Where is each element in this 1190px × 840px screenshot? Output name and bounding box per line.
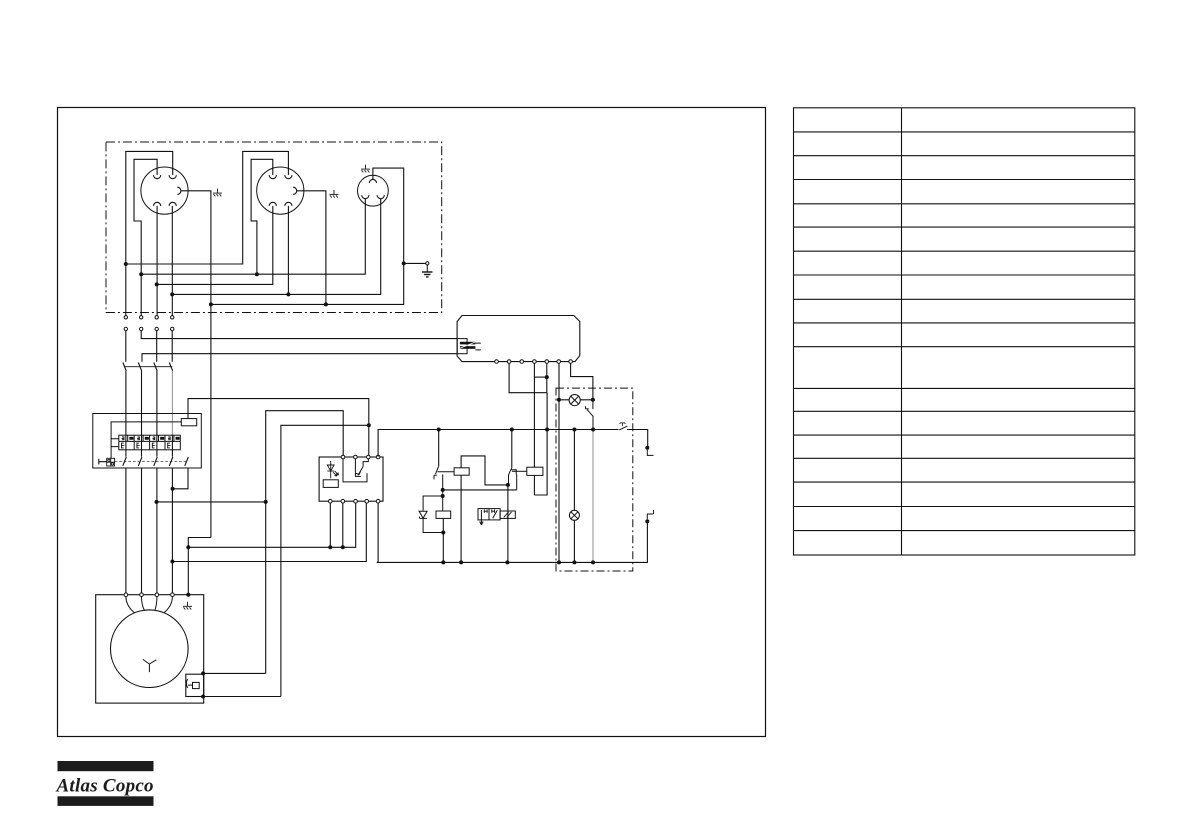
thermistor riser and top run to relay pin t1 [266, 411, 344, 674]
pneumatic valve Y1 body [478, 509, 515, 525]
wire T5 down joining T2 run [546, 363, 548, 392]
main switch linkage line [124, 366, 173, 368]
motor thermal switch box [186, 674, 204, 696]
coil K2 rectangle (right) [527, 467, 543, 475]
bus line 1 from feeder1 to socket X2 pin NE [126, 151, 289, 264]
neutral distribution to relay pins b1 b2 b3 [188, 503, 355, 547]
motor feeder 1 breaker to motor [125, 468, 127, 593]
connector X4 pin circles upper row [124, 316, 174, 319]
cubicle dash-dot enclosure around sockets [106, 142, 442, 313]
coil Y1 rectangle (solenoid coil) [436, 511, 451, 518]
Atlas Copco logo [56, 761, 154, 806]
switch pole 4 drop (grey print) into breaker [171, 371, 173, 435]
bus line 4 from feeder4 to socket X3 pin SE [172, 199, 381, 295]
wire X1 pin SW down to feeder 3 [156, 206, 158, 316]
coil Y1 bottom lead to rail [442, 518, 444, 562]
junction dots in control section [155, 375, 650, 698]
motor star symbol [143, 659, 157, 672]
motor feeder 3 breaker to motor [156, 468, 158, 593]
wire X2 pin SE joining bus 4 [287, 206, 289, 295]
feeder4 tap to relay pin b4 [172, 503, 366, 562]
main switch Q0 blades [123, 363, 173, 371]
earth symbol inside motor box [183, 602, 192, 610]
coil K3 top lead over to interlock contact [461, 456, 508, 485]
svg-text:Atlas Copco: Atlas Copco [56, 776, 154, 797]
relay K1 box [319, 457, 383, 501]
earth symbol beside socket X2 [330, 190, 339, 198]
wire X2 pin NW with jog joining bus 2 [251, 159, 273, 274]
motor feeder 4 breaker to motor [171, 468, 173, 593]
controller lower feed line with drop to switch pole 2 [142, 354, 457, 362]
junction dots on socket bus lines [124, 261, 406, 306]
feeder 3 drop from connector to switch pole 3 [156, 331, 158, 362]
breaker control stubs into contact block [111, 439, 119, 447]
coil K3 rectangle (left) [454, 468, 469, 475]
motor M1 star point terminal dot [186, 593, 190, 597]
overload reset terminal bar [99, 459, 107, 465]
earth symbol beside socket X1 [213, 189, 222, 197]
wire T7 down over to lamp column [571, 363, 593, 400]
breaker Q1 outer box [93, 414, 202, 469]
lamp H1 [569, 395, 580, 406]
bus line 5 from bus5 tap to socket X3 pin N [211, 168, 404, 304]
wire T4 down to coil K2 [533, 363, 535, 467]
thermistor return riser and run to relay pin t3 tap [281, 425, 369, 696]
feeder 2 drop then tap to controller upper plate [141, 331, 457, 339]
door contact S3 lower [647, 510, 654, 519]
breaker Q1 auxiliary rectangle [181, 419, 196, 426]
wire X2 pin E right then down joining bus 5 [297, 191, 326, 305]
EMC filter plates [460, 342, 481, 350]
wire X1 pin E right then down to bus 5 [181, 191, 211, 538]
socket X2 contact pins [269, 175, 296, 206]
paper border frame of schematic sheet [58, 108, 766, 737]
wire X1 pin SE down to feeder 4 [171, 206, 173, 316]
feeder 1 drop from connector to main switch pole 1 [125, 331, 127, 362]
breaker pole wires through block to blades [126, 435, 172, 457]
tap from feeder3 to thermistor riser [157, 501, 266, 503]
lamp panel dash-dot enclosure [556, 388, 633, 571]
motor M1 outer box [96, 595, 204, 703]
contact K2a blade and lower lead [434, 466, 454, 511]
contact K3a vertical from line Q [511, 430, 513, 468]
socket X1 contact pins [154, 175, 181, 206]
neutral jog from socket bus 5 down to motor star point [188, 538, 211, 594]
wire T2 down and across [509, 363, 547, 392]
parts list table (empty two-column table at right) [794, 108, 1135, 555]
breaker trip linkage dashed [115, 461, 187, 463]
feeder 4 drop joining lower controller line [171, 331, 173, 362]
breaker contact block frame [119, 435, 181, 450]
motor M1 winding leads [126, 597, 172, 613]
relay K1 LED indicator [327, 461, 338, 478]
control feed from pole5 riser over to relay column [188, 399, 369, 457]
relay K1 bottom pin drops b1 b2 [330, 503, 343, 547]
control line Q from relay pin t4 across cubicle [378, 430, 648, 457]
bridge T4 to T5 [534, 376, 546, 378]
pushbutton gap and blade on line Q [619, 423, 628, 431]
coil K2 bottom lead stub [533, 475, 535, 495]
motor M1 stator circle [111, 610, 189, 688]
earth terminal circle [426, 262, 429, 265]
breaker internal control run to aux rectangle [111, 422, 181, 458]
motor thermal leads to risers [203, 673, 281, 696]
relay K1 pin b5 drop to rail start [377, 503, 378, 562]
bus line 2 from feeder2 to socket X3 pin SW [141, 199, 365, 275]
solenoid drop through valve to rail [507, 485, 509, 563]
motor feeder 2 breaker to motor [141, 468, 143, 593]
common drop to coil K2 bottom link [534, 393, 547, 495]
door contact S2 upper [647, 450, 653, 456]
breaker pole 5 wire bridging to feeder 4 [173, 468, 188, 489]
socket X2 body [257, 167, 304, 214]
lamp H2 leads [573, 430, 575, 563]
breaker blades [123, 457, 189, 466]
bottom control rail [377, 521, 648, 562]
relay K1 coil rectangle [323, 480, 338, 488]
socket X3 contact pins [362, 179, 385, 198]
motor M1 terminal circles [124, 593, 174, 597]
chassis ground symbol [422, 265, 432, 277]
relay K1 bottom pin circles [329, 499, 380, 503]
lamp column lower run (grey print) [592, 430, 594, 563]
socket X1 body [141, 167, 188, 214]
thermal overload element box [107, 458, 115, 466]
coil K3 bottom lead to rail [460, 475, 462, 562]
wire X1 pin NW up-over-down with jog to feeder 2 [134, 159, 157, 315]
relay K1 internal contact [343, 459, 368, 482]
wire X1 pin NE up-over-down to feeder 1 [126, 151, 173, 315]
breaker contact block glyphs [122, 437, 180, 448]
earth symbol beside socket X3 [361, 165, 370, 173]
lamp H2 [569, 510, 579, 520]
contact K3a blade and leads [509, 467, 527, 490]
switch pole drops into breaker [126, 371, 157, 435]
earth tap from socket X3 riser [404, 262, 428, 264]
thermal switch contact [186, 679, 199, 689]
lamp H1 leads [559, 399, 593, 401]
freewheel diode V1 branch [419, 496, 443, 533]
controller EMC feed-through box [457, 339, 467, 354]
pressure switch on lamp column [586, 400, 594, 430]
socket X3 body [358, 175, 389, 206]
contact K2a vertical from line Q [438, 430, 440, 467]
controller module A1 outline [457, 316, 580, 362]
relay K1 top pin circles [341, 455, 380, 459]
controller terminal circles T1-T7 [495, 360, 573, 364]
wire T6 down through cubicle to rail [558, 363, 560, 562]
interlock run to fixed contact [443, 489, 517, 491]
bus line 3 from feeder3 to socket X2 pin SW [157, 206, 273, 285]
connector X4 socket circles lower row [124, 327, 174, 330]
